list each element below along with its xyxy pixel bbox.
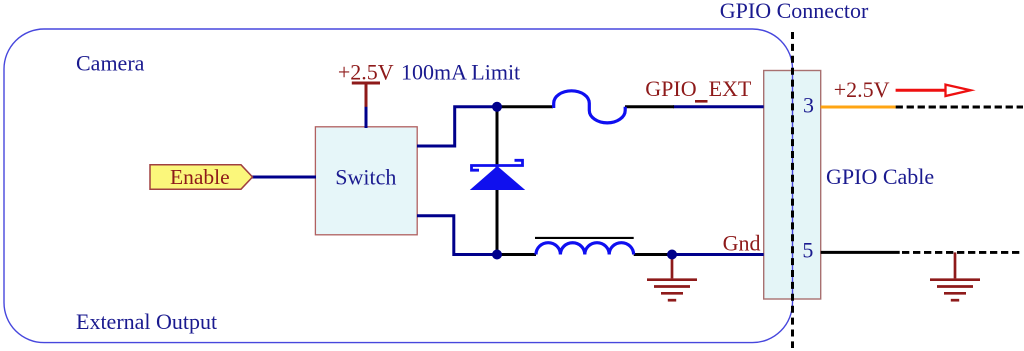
svg-text:Switch: Switch	[335, 164, 396, 189]
svg-text:100mA Limit: 100mA Limit	[401, 60, 520, 85]
svg-text:Gnd: Gnd	[723, 231, 761, 256]
svg-text:5: 5	[802, 238, 813, 263]
svg-text:EXT: EXT	[709, 76, 752, 101]
svg-text:GPIO Cable: GPIO Cable	[826, 164, 934, 189]
svg-text:+2.5V: +2.5V	[338, 60, 394, 85]
svg-text:3: 3	[803, 92, 814, 117]
svg-text:Camera: Camera	[76, 51, 145, 76]
svg-text:GPIO Connector: GPIO Connector	[720, 0, 869, 23]
svg-text:External Output: External Output	[76, 309, 217, 334]
svg-text:Enable: Enable	[170, 165, 230, 189]
svg-text:GPIO: GPIO	[645, 76, 696, 101]
svg-text:+2.5V: +2.5V	[834, 77, 890, 102]
